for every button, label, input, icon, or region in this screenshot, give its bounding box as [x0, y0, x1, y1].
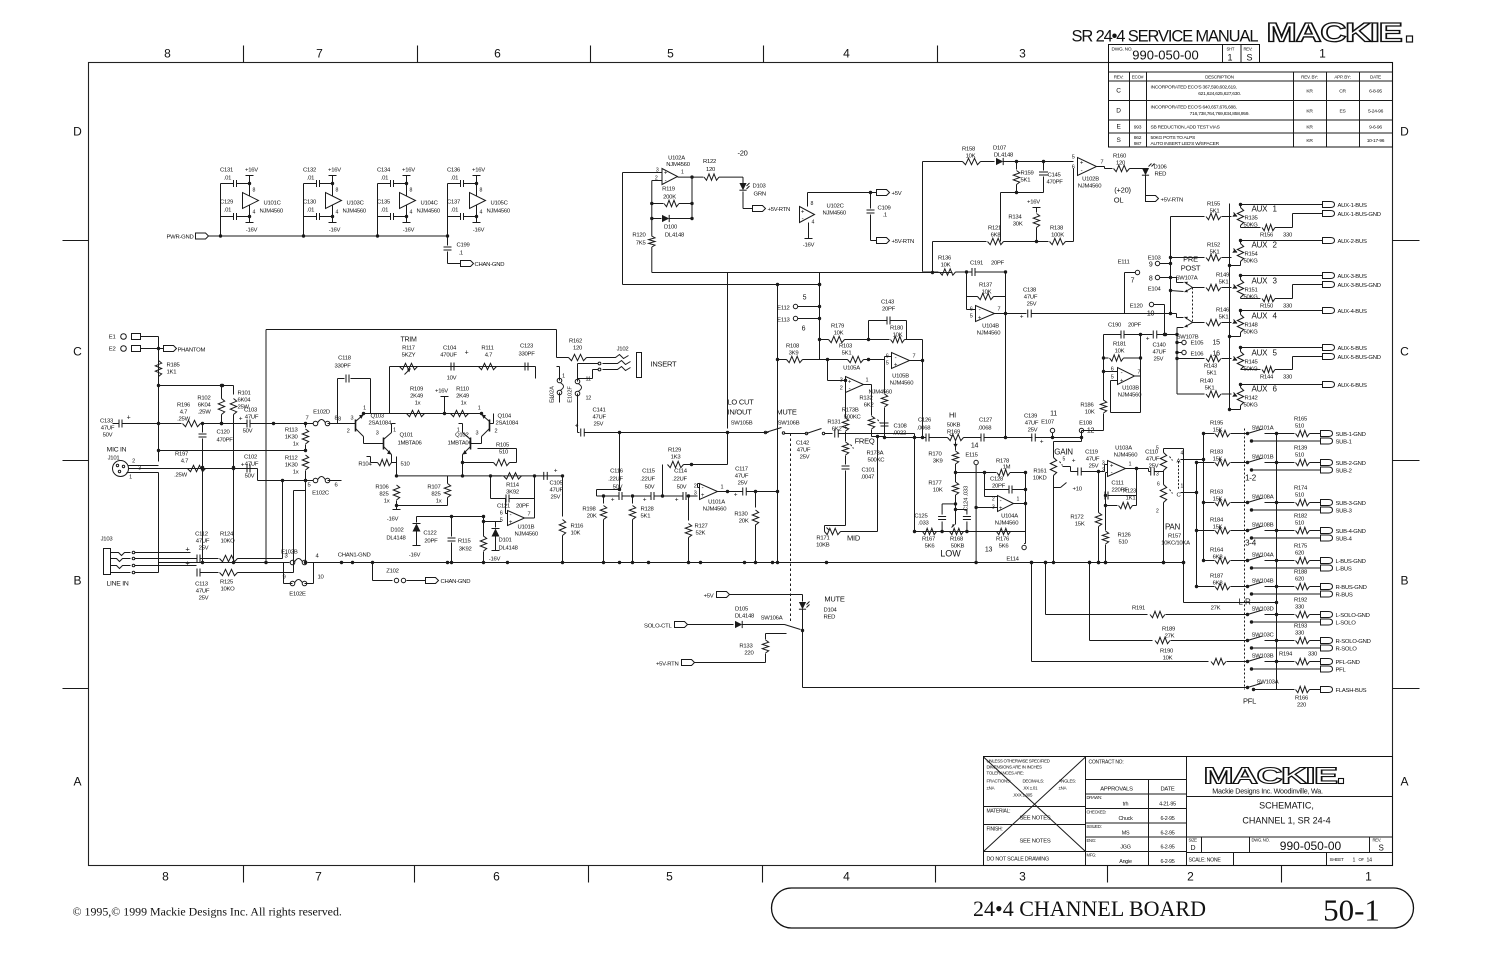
svg-text:TOLERANCES ARE:: TOLERANCES ARE: — [987, 771, 1024, 776]
svg-text:-: - — [802, 217, 804, 223]
svg-text:5-24-96: 5-24-96 — [1368, 108, 1384, 114]
svg-text:4.7: 4.7 — [181, 459, 188, 465]
svg-text:SW108B: SW108B — [1252, 523, 1274, 529]
svg-text:9: 9 — [1149, 262, 1153, 269]
svg-text:R156: R156 — [1260, 233, 1274, 239]
svg-text:15: 15 — [1213, 340, 1221, 347]
svg-text:1MBTA06: 1MBTA06 — [398, 441, 423, 447]
resistor R139 — [1277, 462, 1295, 464]
svg-text:50KG: 50KG — [1244, 330, 1259, 336]
svg-text:6-2-95: 6-2-95 — [1160, 845, 1174, 851]
capacitor C145 — [1043, 162, 1045, 171]
svg-text:7: 7 — [1101, 160, 1104, 166]
resistor R156 — [1240, 226, 1242, 228]
wire preamp out to insert — [556, 330, 558, 358]
svg-text:R180: R180 — [890, 326, 904, 332]
svg-text:825: 825 — [379, 492, 389, 498]
svg-text:C: C — [1116, 87, 1121, 94]
svg-text:3K9: 3K9 — [933, 459, 943, 465]
svg-text:10K: 10K — [1163, 656, 1173, 662]
svg-text:50KB: 50KB — [947, 423, 961, 429]
svg-text:5KZY: 5KZY — [402, 353, 416, 359]
svg-text:1: 1 — [1129, 462, 1132, 468]
svg-text:C133: C133 — [100, 419, 114, 425]
svg-text:1K3: 1K3 — [671, 455, 682, 461]
svg-text:DATE: DATE — [1370, 75, 1381, 80]
mute jumper +10 — [1054, 487, 1061, 489]
svg-text:3: 3 — [376, 431, 379, 437]
svg-text:10: 10 — [318, 575, 325, 581]
svg-text:4: 4 — [480, 210, 483, 216]
resistor R128 — [632, 496, 634, 504]
svg-text:R148: R148 — [1245, 323, 1259, 329]
svg-text:SHT: SHT — [1227, 47, 1235, 52]
svg-text:FREQ: FREQ — [855, 437, 875, 446]
svg-text:NJM4560: NJM4560 — [1078, 184, 1102, 190]
svg-text:C145: C145 — [1048, 173, 1062, 179]
svg-text:862: 862 — [1134, 135, 1142, 141]
op-amp U105C — [476, 184, 478, 223]
svg-text:2: 2 — [840, 386, 843, 392]
svg-text:APP. BY:: APP. BY: — [1334, 75, 1350, 80]
svg-text:AUX-1-BUS-GND: AUX-1-BUS-GND — [1338, 212, 1381, 218]
fader pot R161 — [1081, 438, 1083, 442]
svg-text:+10: +10 — [1073, 487, 1083, 493]
svg-text:330: 330 — [1308, 652, 1318, 658]
svg-text:1: 1 — [457, 428, 460, 434]
pan wipers — [1170, 457, 1173, 461]
svg-text:E104: E104 — [1148, 287, 1162, 293]
svg-text:R117: R117 — [402, 346, 415, 352]
net tag L-BUS-GND — [1321, 558, 1333, 564]
potentiometer R154 AUX 2 — [1237, 244, 1243, 262]
svg-text:+16V: +16V — [472, 168, 485, 174]
svg-text:E102B: E102B — [281, 550, 298, 556]
svg-text:10KC/10KA: 10KC/10KA — [1161, 541, 1190, 547]
svg-text:50V: 50V — [677, 485, 687, 491]
svg-text:-: - — [895, 356, 897, 362]
svg-text:MUTE: MUTE — [824, 595, 844, 604]
svg-text:Mackie Designs Inc. Woodinvi: Mackie Designs Inc. Woodinville, Wa. — [1212, 787, 1323, 796]
svg-text:25V: 25V — [551, 495, 561, 501]
power -16V R106 — [393, 509, 401, 511]
svg-text:11: 11 — [586, 377, 591, 383]
svg-text:E112: E112 — [777, 306, 789, 312]
net tag AUX-2-BUS — [1241, 240, 1323, 242]
svg-text:-16V: -16V — [329, 228, 341, 234]
net tag +5V — [871, 192, 877, 194]
svg-text:R145: R145 — [1245, 360, 1259, 366]
svg-text:D107: D107 — [993, 146, 1006, 152]
wire drop x777 to rail — [777, 285, 779, 563]
svg-text:DWG. NO.: DWG. NO. — [1112, 47, 1133, 53]
capacitor C121 — [491, 498, 506, 500]
svg-text:50KG: 50KG — [1244, 259, 1259, 265]
svg-text:AUX: AUX — [1252, 205, 1269, 214]
svg-text:REV:: REV: — [1244, 47, 1253, 52]
svg-text:R197: R197 — [175, 452, 188, 458]
svg-text:R136: R136 — [938, 256, 952, 262]
svg-text:1: 1 — [478, 406, 481, 412]
svg-text:CHECKED:: CHECKED: — [1087, 810, 1107, 815]
svg-text:5K1: 5K1 — [1219, 315, 1229, 321]
svg-text:C109: C109 — [878, 206, 891, 212]
resistor R159 — [1016, 162, 1018, 170]
svg-text:R161: R161 — [1033, 469, 1046, 475]
svg-text:+: + — [675, 497, 679, 504]
svg-text:R196: R196 — [177, 403, 191, 409]
power -16V D102 — [413, 545, 421, 547]
bypass cell U101C — [220, 184, 222, 237]
svg-text:.22UF: .22UF — [640, 477, 655, 483]
svg-text:Z102: Z102 — [386, 569, 398, 575]
svg-text:SCALE: NONE: SCALE: NONE — [1189, 858, 1222, 864]
power -16V — [473, 222, 481, 224]
wire U104B out row — [1125, 313, 1171, 315]
svg-text:GAIN: GAIN — [1054, 448, 1073, 457]
svg-text:D103: D103 — [753, 184, 767, 190]
svg-text:R116: R116 — [571, 524, 585, 530]
svg-text:R113: R113 — [285, 428, 299, 434]
svg-text:2: 2 — [347, 429, 350, 435]
net tag AUX-6-BUS — [1241, 384, 1323, 386]
svg-text:(+20): (+20) — [1114, 186, 1131, 195]
svg-text:R-SOLO: R-SOLO — [1336, 647, 1358, 653]
svg-text:1x: 1x — [461, 401, 467, 407]
capacitor C134 — [390, 180, 392, 187]
svg-text:+: + — [1040, 439, 1044, 446]
resistor R194 — [1277, 661, 1295, 663]
net tag +5V-RTN C109 — [871, 240, 877, 242]
svg-text:E111: E111 — [1118, 260, 1130, 266]
svg-text:4: 4 — [843, 870, 850, 884]
svg-text:Angie: Angie — [1119, 859, 1132, 865]
svg-text:C129: C129 — [220, 200, 233, 206]
diff collector rows — [396, 457, 398, 476]
svg-text:R185: R185 — [167, 363, 181, 369]
svg-text:U101A: U101A — [708, 500, 725, 506]
svg-text:E115: E115 — [965, 453, 978, 459]
svg-text:C: C — [73, 345, 82, 359]
svg-text:47UF: 47UF — [797, 448, 811, 454]
svg-text:MID: MID — [847, 534, 861, 543]
svg-text:R124: R124 — [220, 532, 234, 538]
svg-text:-: - — [1081, 169, 1083, 175]
svg-text:NJM4560: NJM4560 — [977, 331, 1001, 337]
eq hi row — [885, 437, 915, 439]
wires line in — [135, 552, 191, 554]
resistor R182 — [1277, 530, 1295, 532]
svg-text:5: 5 — [667, 47, 674, 61]
svg-text:6K8: 6K8 — [1213, 555, 1224, 561]
svg-text:S: S — [1247, 53, 1253, 63]
power +16V — [249, 176, 251, 184]
svg-text:R157: R157 — [1168, 534, 1181, 540]
svg-text:6-8-95: 6-8-95 — [1369, 88, 1382, 94]
svg-text:330: 330 — [1295, 605, 1305, 611]
svg-text:KR: KR — [1306, 125, 1313, 131]
svg-text:L-SOLO-GND: L-SOLO-GND — [1336, 613, 1370, 619]
svg-text:AUX: AUX — [1252, 349, 1269, 358]
svg-text:ECO#: ECO# — [1132, 75, 1144, 80]
potentiometer R151 AUX 3 — [1237, 280, 1243, 298]
svg-text:U103A: U103A — [1115, 446, 1132, 452]
svg-text:1: 1 — [562, 374, 565, 380]
svg-text:+: + — [241, 462, 245, 469]
svg-text:.25W: .25W — [174, 473, 187, 479]
diode D103 — [739, 183, 746, 190]
svg-text:U102A: U102A — [668, 156, 685, 162]
svg-text:5K1: 5K1 — [641, 514, 651, 520]
svg-text:4: 4 — [336, 210, 339, 216]
svg-text:+5V-RTN: +5V-RTN — [656, 662, 679, 668]
svg-text:8: 8 — [336, 188, 339, 194]
svg-text:7: 7 — [305, 416, 308, 422]
svg-text:R189: R189 — [1162, 627, 1175, 633]
L-R link row — [1183, 563, 1185, 603]
svg-text:R121: R121 — [988, 226, 1001, 232]
svg-text:5K1: 5K1 — [842, 351, 852, 357]
svg-text:5: 5 — [666, 870, 673, 884]
svg-text:7: 7 — [528, 512, 531, 518]
svg-text:AUX: AUX — [1252, 241, 1269, 250]
net tag SUB-4 — [1250, 536, 1253, 539]
svg-text:C103: C103 — [244, 408, 258, 414]
svg-text:U104C: U104C — [421, 201, 439, 207]
svg-text:13: 13 — [985, 547, 993, 554]
resistor R107 — [447, 476, 449, 484]
svg-text:47UF: 47UF — [1086, 457, 1100, 463]
svg-text:U101B: U101B — [518, 525, 535, 531]
svg-text:620: 620 — [1295, 577, 1305, 583]
svg-text:PHANTOM: PHANTOM — [178, 348, 206, 354]
svg-text:Q101: Q101 — [400, 433, 413, 439]
svg-text:© 1995,© 1999 Mackie Designs I: © 1995,© 1999 Mackie Designs Inc. All ri… — [73, 905, 342, 919]
svg-text:E2: E2 — [109, 347, 116, 353]
svg-text:FINISH:: FINISH: — [987, 827, 1003, 833]
svg-text:5K1: 5K1 — [1219, 280, 1229, 286]
svg-text:25V: 25V — [800, 455, 810, 461]
svg-text:2: 2 — [132, 459, 135, 465]
svg-text:AUX-3-BUS-GND: AUX-3-BUS-GND — [1338, 283, 1381, 289]
svg-text:C143: C143 — [881, 300, 895, 306]
svg-text:1: 1 — [1017, 497, 1020, 503]
net tag AUX-5-BUS-GND — [1323, 354, 1335, 360]
capacitor C129 — [233, 213, 235, 220]
resistor R198 — [603, 496, 605, 504]
svg-text:C126: C126 — [918, 418, 932, 424]
svg-text:C: C — [1400, 345, 1409, 359]
svg-text:10K: 10K — [1085, 410, 1095, 416]
bypass cell U104C — [377, 184, 379, 237]
svg-text:KR: KR — [1306, 108, 1313, 114]
svg-text:220: 220 — [744, 651, 754, 657]
svg-text:4.7: 4.7 — [180, 410, 187, 416]
svg-text:1x: 1x — [384, 499, 390, 505]
svg-text:SW104B: SW104B — [1252, 579, 1274, 585]
svg-text:U105B: U105B — [892, 374, 909, 380]
dwg no box — [1109, 45, 1260, 63]
svg-text:SUB-1-GND: SUB-1-GND — [1336, 432, 1366, 438]
net tag +5V-RTN peak — [1146, 196, 1159, 202]
svg-text:5K1: 5K1 — [1205, 386, 1215, 392]
svg-text:C137: C137 — [447, 200, 460, 206]
svg-text:B: B — [73, 574, 81, 588]
wire lo cut taps — [619, 433, 621, 490]
svg-text:25V: 25V — [1154, 357, 1164, 363]
svg-text:Q104: Q104 — [498, 414, 512, 420]
svg-text:SW101B: SW101B — [1252, 455, 1274, 461]
power +16V — [332, 176, 334, 184]
svg-text:R187: R187 — [1210, 574, 1223, 580]
svg-text:3K92: 3K92 — [506, 490, 519, 496]
svg-text:.0047: .0047 — [861, 475, 875, 481]
svg-text:ES: ES — [1339, 108, 1346, 114]
resistor R130 — [755, 492, 757, 508]
resistor R193 — [1277, 640, 1295, 642]
svg-text:R155: R155 — [1207, 202, 1221, 208]
svg-text:7: 7 — [315, 870, 322, 884]
resistor R175 — [1277, 560, 1295, 562]
svg-text:R179: R179 — [831, 324, 844, 330]
svg-text:2: 2 — [551, 396, 554, 402]
svg-text:E102C: E102C — [312, 491, 330, 497]
svg-text:R103: R103 — [839, 344, 853, 350]
svg-text:R107: R107 — [427, 485, 440, 491]
svg-text:C115: C115 — [642, 469, 656, 475]
svg-text:510: 510 — [401, 462, 411, 468]
svg-text:R188: R188 — [1294, 570, 1308, 576]
svg-text:C128: C128 — [990, 477, 1004, 483]
svg-text:C101: C101 — [862, 468, 875, 474]
svg-text:7K5: 7K5 — [636, 241, 647, 247]
svg-text:25V: 25V — [1027, 302, 1037, 308]
net tag AUX-5-BUS — [1241, 347, 1323, 349]
svg-text:10K: 10K — [1115, 349, 1125, 355]
svg-text:R128: R128 — [641, 507, 655, 513]
net tag CHAN-GND 2 — [426, 578, 439, 584]
svg-text:B: B — [1400, 574, 1408, 588]
svg-text:GRN: GRN — [754, 192, 766, 198]
svg-text:R142: R142 — [1245, 396, 1258, 402]
svg-text:MFG:: MFG: — [1087, 853, 1097, 858]
svg-text:D: D — [1400, 125, 1409, 139]
svg-text:RED: RED — [824, 615, 836, 621]
svg-text:5K1: 5K1 — [1207, 371, 1217, 377]
svg-text:8: 8 — [410, 188, 413, 194]
svg-text:47UF: 47UF — [1146, 457, 1160, 463]
svg-text:CHANNEL 1, SR 24-4: CHANNEL 1, SR 24-4 — [1242, 816, 1330, 826]
svg-text:2: 2 — [495, 429, 498, 435]
svg-text:E102F: E102F — [568, 386, 574, 403]
svg-text:+: + — [239, 416, 243, 423]
net tag PFL — [1250, 667, 1253, 670]
test point E105 — [1182, 340, 1186, 344]
svg-text:AUX-1-BUS: AUX-1-BUS — [1338, 203, 1367, 209]
svg-text:U101C: U101C — [264, 201, 282, 207]
svg-text:R194: R194 — [1279, 652, 1293, 658]
svg-text:621,624,625,627,630.: 621,624,625,627,630. — [1198, 91, 1241, 97]
svg-text:2: 2 — [694, 484, 697, 490]
svg-text:1: 1 — [363, 406, 366, 412]
svg-text:47UF: 47UF — [550, 488, 564, 494]
svg-text:-: - — [702, 486, 704, 492]
svg-text:SUB-3: SUB-3 — [1336, 509, 1353, 515]
svg-text:R109: R109 — [410, 387, 423, 393]
svg-text:.01: .01 — [307, 176, 314, 182]
svg-text:R172: R172 — [1070, 515, 1083, 521]
svg-text:C199: C199 — [457, 243, 470, 249]
svg-text:SW101A: SW101A — [1252, 426, 1274, 432]
svg-text:LOW: LOW — [940, 549, 961, 559]
resistor R113 — [305, 424, 307, 428]
svg-text:C190: C190 — [1108, 323, 1122, 329]
svg-text:50KG POTS TO ALPS: 50KG POTS TO ALPS — [1151, 135, 1196, 141]
svg-text:C112: C112 — [195, 532, 208, 538]
svg-text:UNLESS OTHERWISE SPECIFIED: UNLESS OTHERWISE SPECIFIED — [987, 759, 1050, 764]
capacitor C130 — [316, 213, 318, 220]
svg-text:C136: C136 — [447, 168, 461, 174]
svg-text:.01: .01 — [451, 208, 458, 214]
pot R171 MID — [825, 525, 846, 527]
svg-text:U104B: U104B — [982, 324, 999, 330]
capacitor C132 — [316, 180, 318, 187]
net tag L-SOLO — [1250, 620, 1253, 623]
svg-text:FLASH-BUS: FLASH-BUS — [1336, 688, 1367, 694]
svg-text:R140: R140 — [1200, 379, 1214, 385]
svg-text:6-2-95: 6-2-95 — [1160, 859, 1174, 865]
svg-text:C124 .033: C124 .033 — [964, 485, 970, 511]
svg-text:6K8: 6K8 — [1213, 581, 1224, 587]
svg-text:Q103: Q103 — [371, 414, 385, 420]
wire drop x727 — [727, 273, 729, 429]
wiper to C119 — [1063, 466, 1071, 468]
svg-text:4: 4 — [843, 47, 850, 61]
svg-text:C135: C135 — [377, 200, 391, 206]
svg-text:R137: R137 — [979, 283, 992, 289]
wires from mic jack — [129, 465, 159, 467]
power -16V D101 — [492, 550, 500, 552]
svg-text:E120: E120 — [1130, 304, 1144, 310]
svg-text:50V: 50V — [243, 429, 253, 435]
svg-text:R154: R154 — [1245, 252, 1259, 258]
svg-text:+: + — [1020, 314, 1024, 321]
svg-text:R173A: R173A — [867, 451, 884, 457]
svg-text:C138: C138 — [1023, 288, 1037, 294]
bypass cell U105C — [447, 184, 449, 237]
svg-text:470UF: 470UF — [440, 353, 457, 359]
svg-text:U105A: U105A — [843, 366, 860, 372]
svg-text:SW103B: SW103B — [1252, 654, 1274, 660]
test point E106 — [1182, 350, 1186, 354]
svg-text:50KG: 50KG — [1244, 403, 1259, 409]
svg-text:-: - — [665, 179, 667, 185]
svg-text:8: 8 — [338, 417, 341, 423]
svg-text:.22UF: .22UF — [608, 477, 623, 483]
svg-text:E1: E1 — [109, 335, 116, 341]
switch bus vertical — [1276, 434, 1278, 690]
op-amp U105B — [892, 353, 910, 369]
svg-text:-: - — [1111, 471, 1113, 477]
svg-text:C140: C140 — [1153, 343, 1167, 349]
svg-text:.25W: .25W — [198, 410, 211, 416]
svg-text:SW104A: SW104A — [1252, 553, 1274, 559]
svg-text:DIMENSIONS ARE IN INCHES: DIMENSIONS ARE IN INCHES — [987, 765, 1043, 770]
svg-text:.22UF: .22UF — [672, 477, 687, 483]
op-amp U104A — [998, 496, 1014, 512]
svg-text:CHAN1-GND: CHAN1-GND — [338, 553, 371, 559]
svg-text:R175: R175 — [1294, 544, 1308, 550]
